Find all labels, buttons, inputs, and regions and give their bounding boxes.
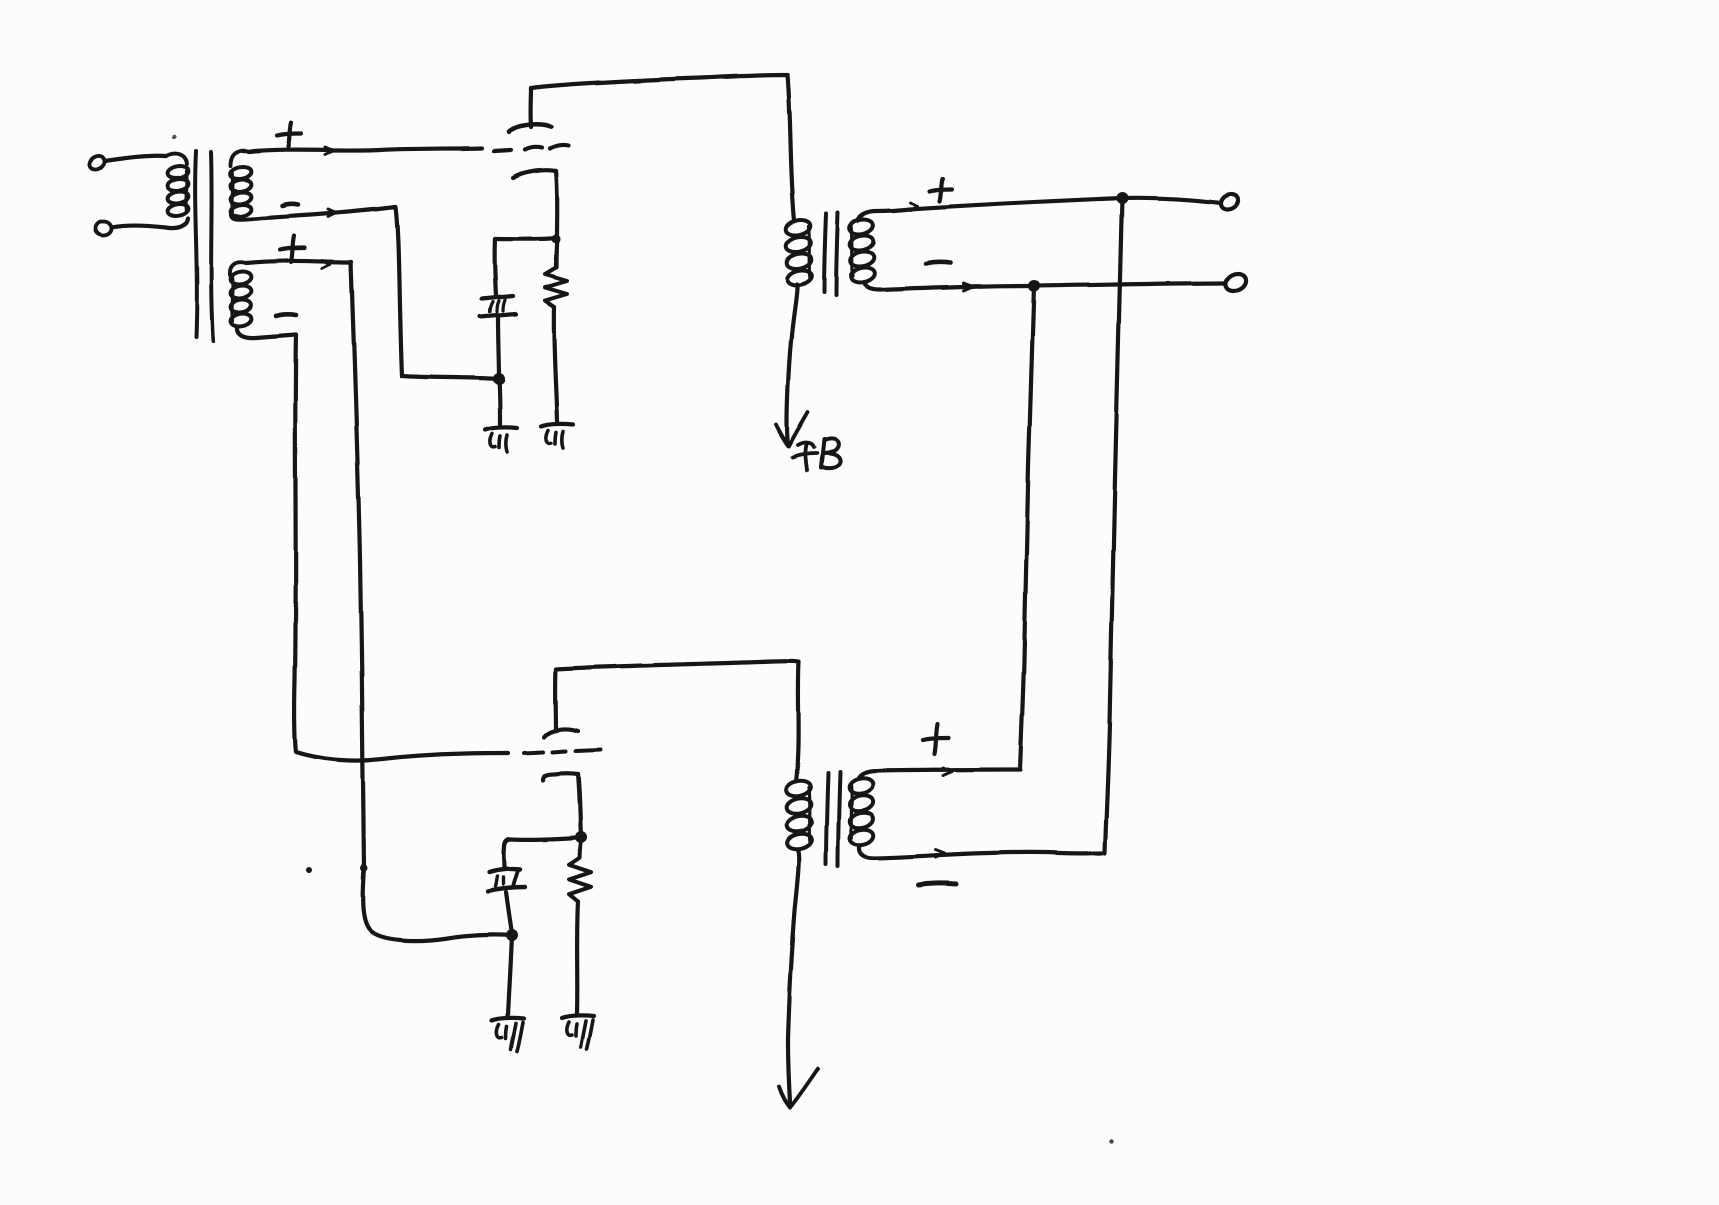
wire [556, 171, 557, 238]
label + (S2) [280, 248, 304, 250]
wire [506, 892, 512, 933]
wire (to +B) [787, 284, 797, 444]
ground [541, 423, 573, 426]
speck [1110, 1139, 1114, 1143]
wire [554, 307, 557, 421]
node [575, 831, 587, 843]
+B supply arrow [779, 1087, 790, 1108]
arrowhead [328, 210, 336, 214]
transformer T4 primary [784, 779, 812, 799]
ground [485, 427, 517, 430]
wire [363, 868, 512, 941]
tube V2 plate [544, 729, 578, 737]
transformer T1 secondary S1 [230, 165, 253, 180]
arrowhead [322, 261, 330, 265]
resistor R2 [569, 857, 591, 901]
node [1116, 192, 1128, 204]
transformer T1 core [195, 151, 197, 337]
wire (J3 node down to T4 secondary -) [1105, 198, 1122, 853]
wire [556, 238, 557, 268]
wire (to +B) [788, 850, 799, 1103]
input terminal J1 [87, 154, 107, 172]
capacitor C1 [482, 296, 513, 299]
resistor R1 [545, 268, 567, 307]
label - (output) [926, 262, 950, 264]
transformer T1 primary winding [167, 164, 190, 179]
wire (J4 node down to T4 secondary +) [1020, 286, 1034, 770]
wire [495, 238, 557, 239]
wire [508, 934, 512, 1016]
label +B [798, 443, 814, 447]
label - (S2) [276, 314, 296, 316]
wire [858, 770, 1020, 779]
wire [528, 88, 533, 127]
tube V1 grid (dashed) [494, 150, 511, 151]
wire [553, 669, 558, 730]
node [506, 929, 518, 941]
transformer T4 core [826, 773, 828, 864]
wire [504, 837, 581, 868]
label - (output lower) [918, 883, 956, 885]
transformer T2 core [824, 214, 826, 292]
node [1028, 280, 1040, 292]
node [552, 235, 561, 244]
speck [306, 867, 312, 873]
wire [580, 837, 581, 857]
transformer T4 secondary [848, 776, 875, 796]
tube V2 cathode [543, 773, 578, 780]
transformer T2 primary [784, 218, 811, 237]
capacitor C2 [489, 869, 520, 872]
arrowhead [935, 850, 944, 854]
wire [531, 75, 794, 221]
arrowhead [963, 284, 972, 288]
wire [556, 661, 799, 782]
input terminal J2 [95, 221, 111, 235]
wire [237, 327, 508, 761]
arrowhead [911, 203, 918, 207]
wire [577, 901, 578, 1013]
output terminal J4 [1223, 270, 1249, 293]
wire [499, 379, 500, 425]
+B supply arrow [776, 424, 788, 445]
wire [578, 774, 581, 836]
wire [249, 148, 482, 152]
tube V1 cathode [513, 170, 556, 178]
wire [864, 282, 1225, 290]
tube V1 plate [509, 124, 551, 132]
node (pen dot) [361, 865, 368, 872]
wire [498, 317, 499, 379]
wire [860, 845, 1102, 858]
wire [231, 207, 499, 379]
wire [857, 198, 1221, 221]
wire [246, 261, 364, 868]
ground [492, 1018, 524, 1021]
arrowhead [325, 148, 333, 152]
ground [562, 1015, 594, 1018]
label + (S1) [277, 134, 301, 136]
transformer T2 secondary [848, 217, 874, 236]
arrowhead [943, 769, 952, 773]
label - (S1) [282, 204, 298, 206]
wire [111, 218, 188, 228]
tube V2 grid (dashed) [524, 752, 543, 753]
wire [495, 239, 496, 296]
speck [172, 135, 176, 139]
label + (output) [930, 189, 952, 191]
wire [105, 156, 166, 161]
transformer T1 secondary S2 [230, 270, 253, 286]
node [493, 373, 505, 385]
output terminal J3 [1219, 191, 1242, 212]
label + (output lower) [923, 738, 949, 740]
